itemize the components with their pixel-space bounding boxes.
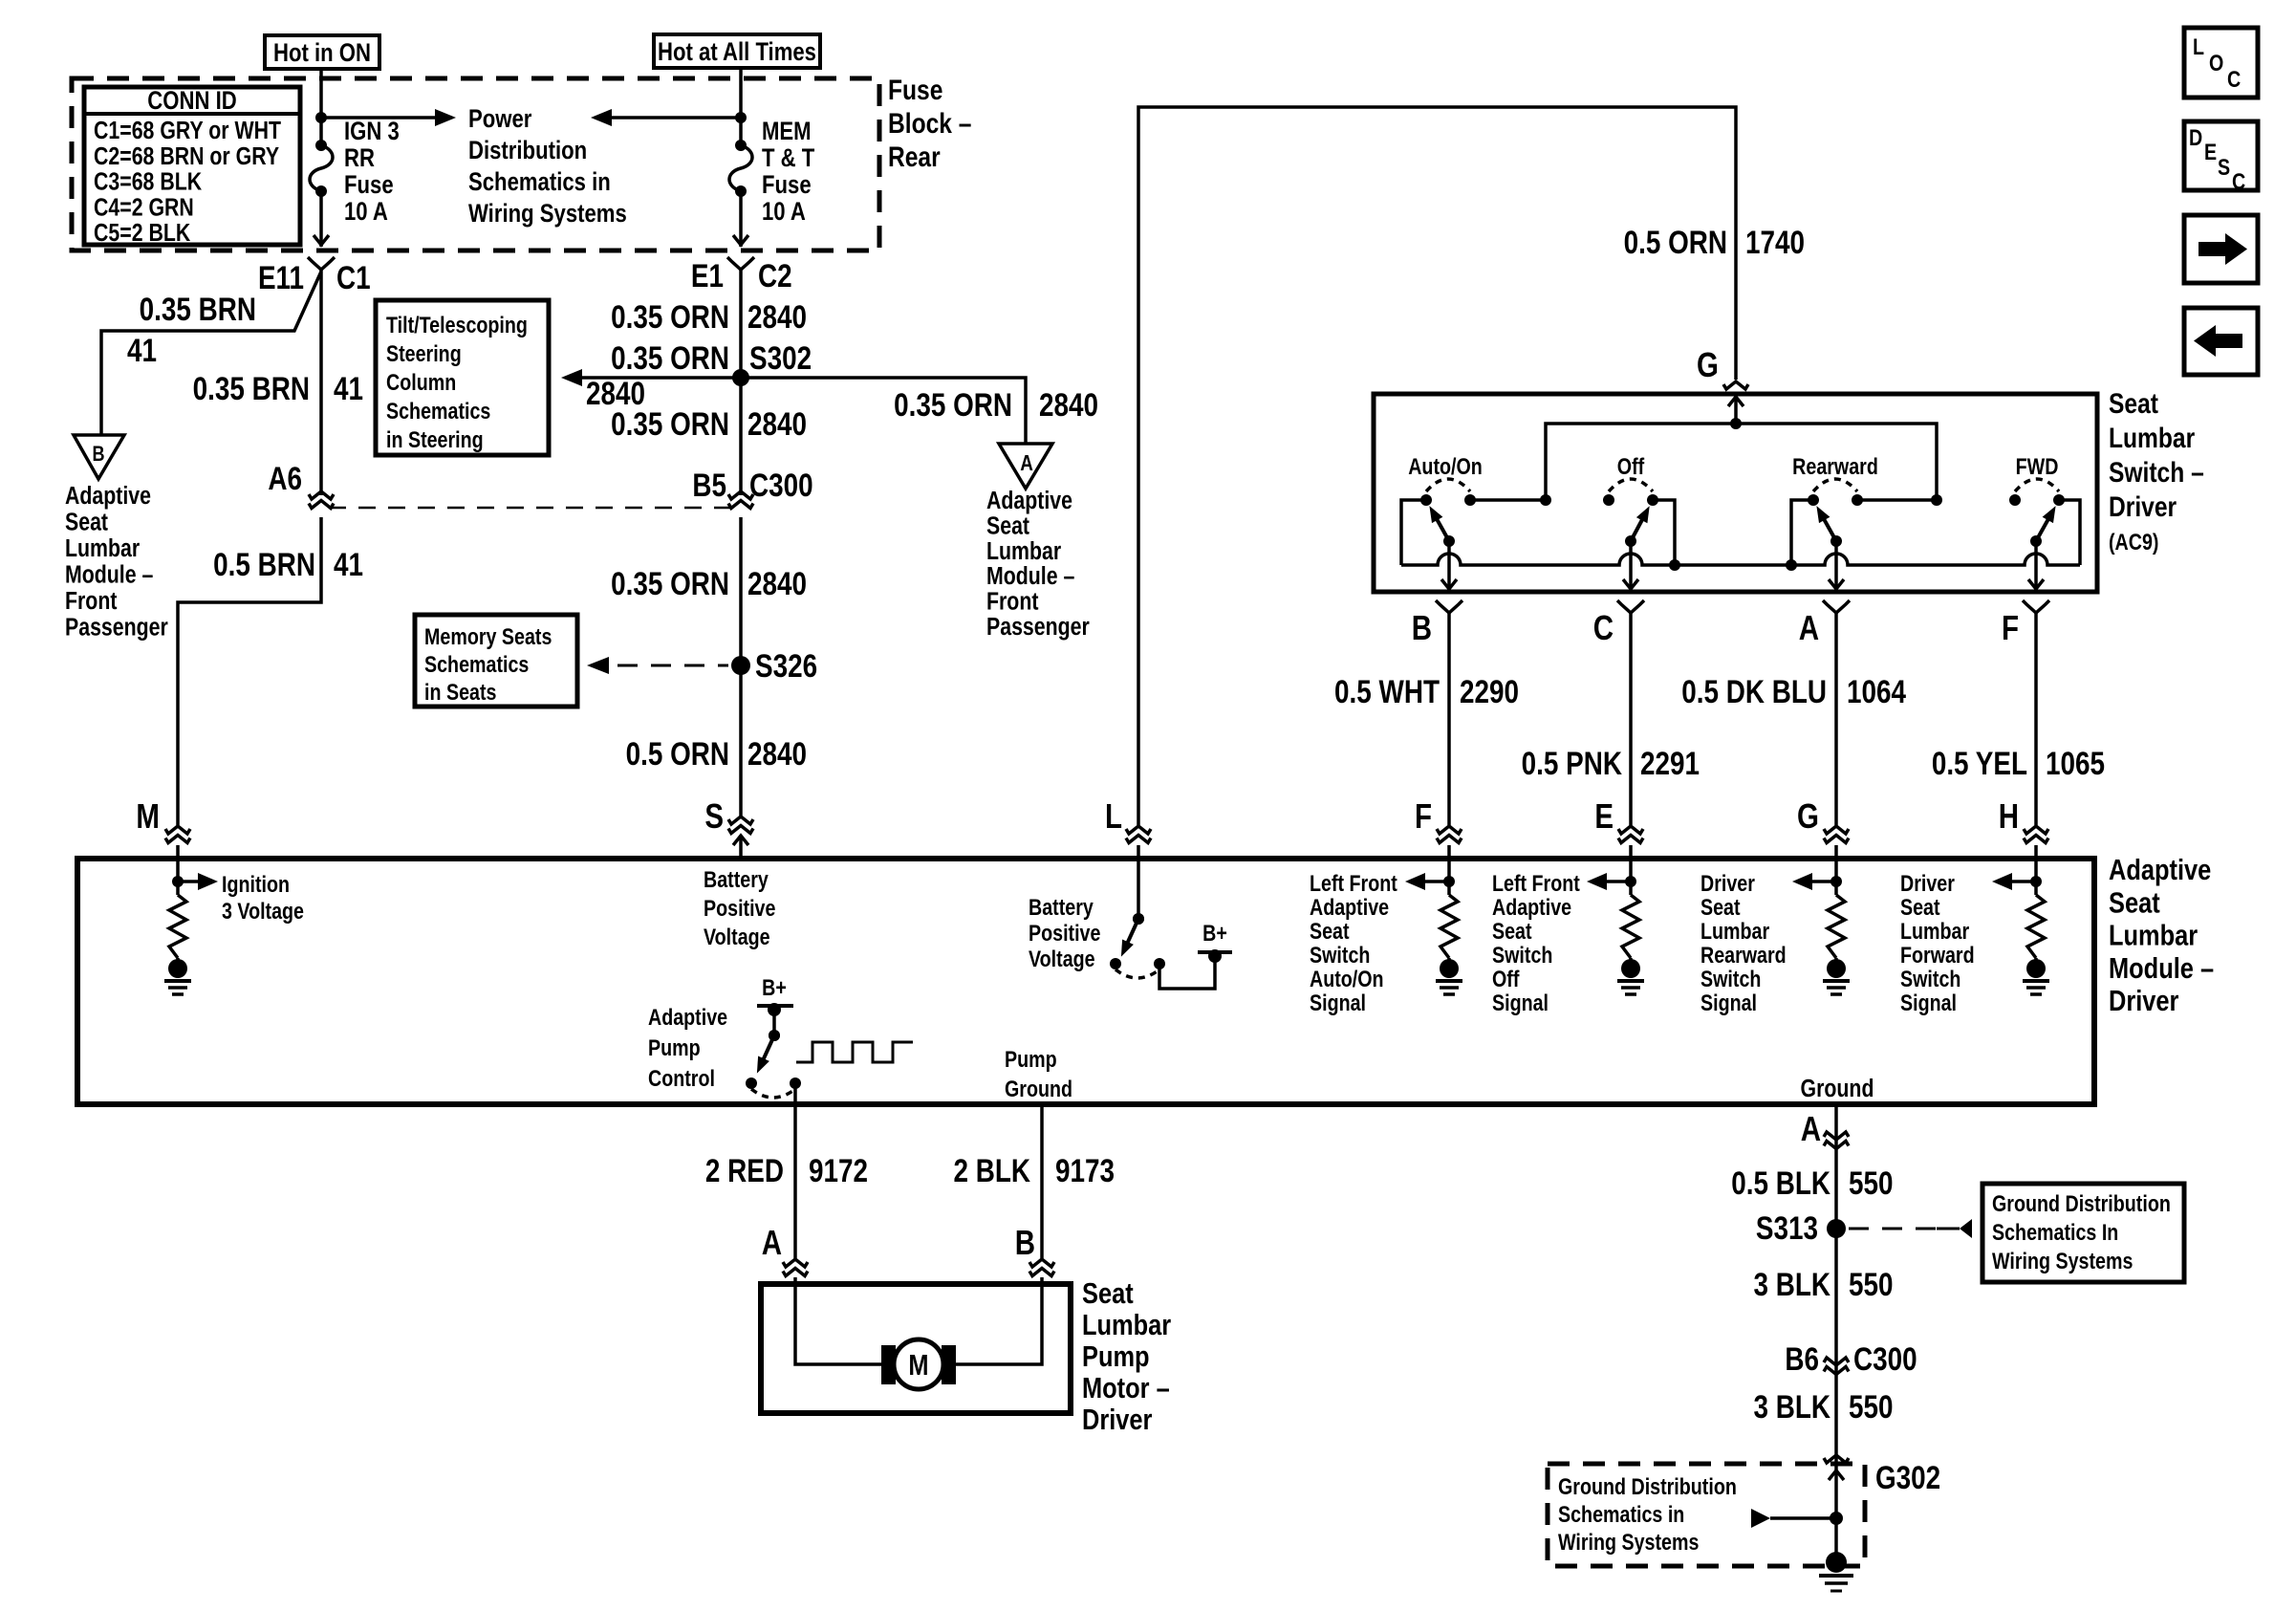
svg-text:Left Front: Left Front bbox=[1310, 870, 1397, 896]
svg-text:Seat: Seat bbox=[1700, 894, 1741, 920]
rail junction (Off) bbox=[1669, 559, 1680, 571]
svg-text:2840: 2840 bbox=[747, 298, 807, 335]
svg-text:C: C bbox=[1593, 608, 1614, 646]
svg-text:Battery: Battery bbox=[1029, 894, 1094, 920]
svg-text:Fuse: Fuse bbox=[344, 171, 394, 200]
junction of feed on contact rail (Rearward-FWD) bbox=[1931, 494, 1942, 506]
Off switch contacts bbox=[1603, 494, 1614, 506]
svg-text:Seat: Seat bbox=[2109, 387, 2158, 420]
adaptive seat lumbar module - driver box bbox=[77, 859, 2094, 1104]
switch pin B wire bbox=[1447, 541, 1451, 592]
node B triangle (front passenger module ref) bbox=[74, 435, 124, 479]
svg-text:C3=68 BLK: C3=68 BLK bbox=[94, 168, 202, 197]
svg-text:in Seats: in Seats bbox=[424, 679, 496, 705]
internal ground at x=1706 bbox=[1629, 958, 1633, 969]
ground output wire from module bbox=[1834, 1104, 1838, 1463]
svg-text:Pump: Pump bbox=[1082, 1340, 1150, 1374]
ground G302 dashed box bbox=[1548, 1464, 1865, 1566]
svg-text:C: C bbox=[2232, 168, 2245, 194]
svg-text:C2=68 BRN or GRY: C2=68 BRN or GRY bbox=[94, 142, 279, 171]
svg-text:Wiring Systems: Wiring Systems bbox=[468, 200, 627, 229]
svg-text:Switch –: Switch – bbox=[2109, 456, 2204, 489]
svg-text:0.5 WHT: 0.5 WHT bbox=[1334, 673, 1440, 709]
wire pump control to motor pin A (2 RED 9172) bbox=[793, 1083, 797, 1258]
svg-text:Lumbar: Lumbar bbox=[1900, 918, 1970, 944]
splice S326 bbox=[731, 656, 750, 675]
ignition 3 voltage node bbox=[176, 857, 180, 895]
svg-text:Left Front: Left Front bbox=[1492, 870, 1580, 896]
svg-text:Passenger: Passenger bbox=[986, 613, 1090, 642]
svg-text:Driver: Driver bbox=[2109, 985, 2178, 1018]
svg-text:Module –: Module – bbox=[2109, 952, 2214, 986]
svg-text:Signal: Signal bbox=[1492, 990, 1549, 1015]
svg-text:A: A bbox=[762, 1223, 782, 1261]
forward arrow legend box bbox=[2184, 215, 2258, 283]
svg-text:(AC9): (AC9) bbox=[2109, 529, 2158, 555]
svg-text:A: A bbox=[1020, 451, 1033, 475]
Off contact wiring bbox=[1653, 500, 1675, 565]
svg-text:9172: 9172 bbox=[809, 1152, 868, 1188]
svg-text:L: L bbox=[1105, 796, 1122, 835]
resistor at x=1921 bbox=[1828, 895, 1845, 958]
battery positive input arrow at S bbox=[739, 836, 743, 857]
svg-text:C2: C2 bbox=[758, 257, 792, 294]
Auto/On contact wiring bbox=[1470, 498, 1546, 502]
svg-text:C5=2 BLK: C5=2 BLK bbox=[94, 219, 190, 248]
svg-text:Switch: Switch bbox=[1900, 966, 1960, 991]
svg-text:Lumbar: Lumbar bbox=[2109, 422, 2195, 454]
CONN ID table bbox=[84, 87, 300, 245]
svg-text:0.5 ORN: 0.5 ORN bbox=[626, 735, 729, 772]
svg-text:0.35 BRN: 0.35 BRN bbox=[193, 370, 310, 406]
svg-text:S302: S302 bbox=[749, 339, 812, 376]
Rearward switch contacts bbox=[1808, 494, 1819, 506]
svg-text:550: 550 bbox=[1849, 1165, 1894, 1201]
motor internal wiring bbox=[795, 1284, 881, 1364]
dashed arrow to Memory Seats reference bbox=[617, 664, 728, 667]
svg-text:B6: B6 bbox=[1785, 1340, 1819, 1377]
svg-text:41: 41 bbox=[127, 332, 157, 368]
svg-text:0.35 ORN: 0.35 ORN bbox=[611, 405, 729, 442]
svg-text:Motor –: Motor – bbox=[1082, 1372, 1170, 1405]
internal ground at x=1921 bbox=[1834, 958, 1838, 969]
svg-text:B+: B+ bbox=[1202, 920, 1227, 946]
resistor at x=1706 bbox=[1622, 895, 1639, 958]
svg-text:E: E bbox=[2204, 139, 2217, 164]
svg-text:M: M bbox=[908, 1349, 928, 1382]
svg-text:E1: E1 bbox=[691, 257, 724, 294]
svg-text:0.35 ORN: 0.35 ORN bbox=[894, 386, 1012, 423]
svg-text:2 BLK: 2 BLK bbox=[953, 1152, 1030, 1188]
svg-text:A: A bbox=[1799, 608, 1819, 646]
svg-text:Lumbar: Lumbar bbox=[2109, 919, 2198, 952]
B+ terminal (battery switch) bbox=[1208, 949, 1222, 963]
wire from Hot in ON to fuse IGN 3 bbox=[319, 69, 323, 145]
svg-text:Fuse: Fuse bbox=[762, 171, 812, 200]
ground G302 symbol bbox=[1826, 1552, 1847, 1573]
svg-text:Hot at All Times: Hot at All Times bbox=[658, 38, 816, 67]
resistor at x=2130 bbox=[2027, 895, 2045, 958]
wire into ground feed arrow bbox=[1834, 1464, 1838, 1562]
splice S313 bbox=[1827, 1219, 1846, 1238]
switch pin A wire bbox=[1834, 541, 1838, 592]
FWD contact wiring bbox=[2059, 500, 2080, 565]
svg-text:2 RED: 2 RED bbox=[705, 1152, 784, 1188]
svg-text:C4=2 GRN: C4=2 GRN bbox=[94, 193, 194, 222]
svg-text:Ground: Ground bbox=[1005, 1076, 1072, 1101]
svg-text:Block –: Block – bbox=[888, 107, 971, 140]
seat lumbar pump motor - driver box bbox=[761, 1284, 1071, 1413]
svg-text:Pump: Pump bbox=[648, 1034, 701, 1060]
FWD switch blade bbox=[2030, 535, 2042, 547]
svg-text:Switch: Switch bbox=[1310, 942, 1370, 968]
svg-text:Seat: Seat bbox=[65, 509, 108, 537]
svg-text:MEM: MEM bbox=[762, 118, 812, 146]
svg-text:41: 41 bbox=[334, 546, 363, 582]
svg-text:1064: 1064 bbox=[1847, 673, 1907, 709]
svg-text:Passenger: Passenger bbox=[65, 614, 168, 642]
wire B5 to S326 bbox=[739, 517, 743, 665]
motor M (pump motor) bbox=[881, 1345, 896, 1384]
svg-text:T & T: T & T bbox=[762, 144, 814, 173]
wire pump ground to motor pin B (2 BLK 9173) bbox=[1040, 1104, 1044, 1258]
node A triangle (front passenger module ref) bbox=[999, 444, 1052, 489]
svg-text:in Steering: in Steering bbox=[386, 426, 484, 452]
Rearward contact wiring bbox=[1857, 498, 1937, 502]
svg-text:3 BLK: 3 BLK bbox=[1753, 1388, 1830, 1425]
svg-text:Seat: Seat bbox=[1492, 918, 1532, 944]
svg-text:0.5 PNK: 0.5 PNK bbox=[1522, 745, 1623, 781]
Off switch blade bbox=[1625, 535, 1636, 547]
svg-text:Seat: Seat bbox=[1082, 1277, 1134, 1311]
svg-text:1740: 1740 bbox=[1745, 224, 1805, 260]
svg-text:Auto/On: Auto/On bbox=[1408, 453, 1483, 479]
switch feed arrow from G bbox=[1734, 397, 1738, 424]
svg-text:Forward: Forward bbox=[1900, 942, 1975, 968]
svg-text:Control: Control bbox=[648, 1065, 715, 1091]
svg-text:Tilt/Telescoping: Tilt/Telescoping bbox=[386, 312, 528, 337]
svg-text:Seat: Seat bbox=[1900, 894, 1940, 920]
Hot at All Times label box bbox=[654, 34, 820, 68]
svg-text:G302: G302 bbox=[1875, 1459, 1940, 1495]
svg-text:2840: 2840 bbox=[1039, 386, 1098, 423]
wire S302 down to B5 bbox=[739, 378, 743, 495]
svg-text:Module –: Module – bbox=[65, 561, 153, 590]
svg-text:2840: 2840 bbox=[747, 405, 807, 442]
ground node junction bbox=[1830, 1512, 1843, 1525]
svg-text:Adaptive: Adaptive bbox=[1310, 894, 1389, 920]
svg-text:B: B bbox=[1015, 1223, 1035, 1261]
svg-text:G: G bbox=[1797, 796, 1819, 835]
svg-text:Voltage: Voltage bbox=[704, 924, 770, 949]
svg-text:C300: C300 bbox=[749, 467, 813, 503]
svg-text:FWD: FWD bbox=[2016, 453, 2059, 479]
svg-text:C1=68 GRY or WHT: C1=68 GRY or WHT bbox=[94, 117, 281, 145]
svg-text:Voltage: Voltage bbox=[1029, 946, 1095, 971]
svg-text:Driver: Driver bbox=[1082, 1404, 1152, 1437]
svg-text:Steering: Steering bbox=[386, 340, 462, 366]
svg-text:Lumbar: Lumbar bbox=[986, 537, 1061, 566]
svg-text:G: G bbox=[1697, 345, 1719, 383]
svg-text:S313: S313 bbox=[1756, 1209, 1818, 1246]
svg-text:S326: S326 bbox=[755, 647, 817, 684]
Hot in ON label box bbox=[265, 35, 379, 69]
svg-text:B: B bbox=[1412, 608, 1432, 646]
wire C2 E1 down to S302 bbox=[739, 270, 743, 378]
svg-text:0.5 BRN: 0.5 BRN bbox=[213, 546, 315, 582]
svg-text:B+: B+ bbox=[762, 974, 787, 1000]
input node pin at x=1921 bbox=[1834, 857, 1838, 895]
svg-text:Ground Distribution: Ground Distribution bbox=[1558, 1473, 1737, 1499]
svg-text:Module –: Module – bbox=[986, 562, 1074, 591]
svg-text:Off: Off bbox=[1617, 453, 1645, 479]
svg-text:Schematics In: Schematics In bbox=[1992, 1219, 2118, 1245]
svg-text:IGN 3: IGN 3 bbox=[344, 118, 400, 146]
svg-text:Schematics: Schematics bbox=[386, 398, 490, 424]
svg-text:F: F bbox=[1415, 796, 1432, 835]
svg-text:S: S bbox=[704, 796, 724, 835]
svg-text:Positive: Positive bbox=[704, 895, 775, 921]
svg-text:C1: C1 bbox=[336, 259, 371, 295]
svg-text:9173: 9173 bbox=[1055, 1152, 1115, 1188]
svg-text:C: C bbox=[2227, 66, 2241, 92]
wire C1 E11 down to A6 bbox=[319, 270, 323, 495]
svg-text:Rearward: Rearward bbox=[1792, 453, 1878, 479]
svg-text:2840: 2840 bbox=[747, 735, 807, 772]
svg-text:Adaptive: Adaptive bbox=[648, 1004, 727, 1030]
svg-text:Column: Column bbox=[386, 369, 456, 395]
connector at G302 bbox=[1824, 1455, 1849, 1463]
svg-text:Power: Power bbox=[468, 105, 532, 134]
svg-text:Schematics in: Schematics in bbox=[468, 168, 611, 197]
svg-text:Rear: Rear bbox=[888, 141, 941, 173]
svg-text:Ground: Ground bbox=[1801, 1075, 1874, 1103]
svg-text:H: H bbox=[1999, 796, 2019, 835]
svg-text:Adaptive: Adaptive bbox=[65, 482, 151, 511]
svg-text:Fuse: Fuse bbox=[888, 74, 942, 106]
svg-text:2290: 2290 bbox=[1460, 673, 1519, 709]
switch common rail with crossover hops bbox=[1401, 554, 2080, 565]
wire A6 to module pin M bbox=[178, 517, 321, 825]
svg-text:10 A: 10 A bbox=[762, 198, 806, 227]
svg-text:Lumbar: Lumbar bbox=[65, 534, 140, 563]
resistor (ignition 3 voltage) bbox=[169, 895, 186, 958]
fuse block - rear dashed outline bbox=[72, 78, 879, 250]
fuse MEM T&T 10A bbox=[735, 140, 747, 151]
svg-text:Switch: Switch bbox=[1492, 942, 1552, 968]
svg-text:550: 550 bbox=[1849, 1388, 1894, 1425]
svg-text:Driver: Driver bbox=[1900, 870, 1955, 896]
svg-text:0.35 BRN: 0.35 BRN bbox=[140, 291, 256, 327]
switch pin C wire bbox=[1629, 541, 1633, 592]
switch internal distribution wire bbox=[1546, 424, 1937, 500]
svg-text:L: L bbox=[2193, 33, 2204, 59]
svg-text:Signal: Signal bbox=[1900, 990, 1957, 1015]
svg-text:Wiring Systems: Wiring Systems bbox=[1558, 1529, 1699, 1555]
svg-text:Adaptive: Adaptive bbox=[2109, 854, 2211, 887]
svg-text:3 BLK: 3 BLK bbox=[1753, 1266, 1830, 1302]
svg-text:CONN ID: CONN ID bbox=[147, 87, 236, 116]
svg-text:0.5 DK BLU: 0.5 DK BLU bbox=[1681, 673, 1827, 709]
wire 0.35 BRN 41 branch to front passenger module bbox=[101, 272, 321, 435]
resistor at x=1516 bbox=[1440, 895, 1458, 958]
svg-text:41: 41 bbox=[334, 370, 363, 406]
svg-text:Seat: Seat bbox=[986, 512, 1029, 540]
DESC legend box bbox=[2184, 121, 2258, 190]
svg-text:0.5 ORN: 0.5 ORN bbox=[1624, 224, 1727, 260]
dashed arrow to ground distribution reference bbox=[1849, 1228, 1937, 1230]
wire S302 to node A triangle bbox=[741, 378, 1026, 444]
Rearward switch blade bbox=[1830, 535, 1842, 547]
LOC legend box bbox=[2184, 28, 2258, 98]
input node pin at x=1706 bbox=[1629, 857, 1633, 895]
internal ground at x=2130 bbox=[2034, 958, 2038, 969]
svg-text:2291: 2291 bbox=[1640, 745, 1700, 781]
svg-text:Memory Seats: Memory Seats bbox=[424, 623, 552, 649]
svg-text:0.5 BLK: 0.5 BLK bbox=[1731, 1165, 1830, 1201]
svg-text:Distribution: Distribution bbox=[468, 137, 587, 165]
svg-text:0.35 ORN: 0.35 ORN bbox=[611, 339, 729, 376]
internal ground (ignition) bbox=[176, 958, 180, 969]
svg-text:C300: C300 bbox=[1853, 1340, 1917, 1377]
svg-text:Signal: Signal bbox=[1700, 990, 1757, 1015]
svg-text:Battery: Battery bbox=[704, 866, 769, 892]
svg-text:Front: Front bbox=[986, 588, 1039, 617]
svg-text:Ignition: Ignition bbox=[222, 871, 290, 897]
svg-text:Off: Off bbox=[1492, 966, 1520, 991]
svg-text:0.5 YEL: 0.5 YEL bbox=[1932, 745, 2027, 781]
arrow to Power Distribution reference (left) bbox=[612, 116, 741, 120]
svg-text:Driver: Driver bbox=[1700, 870, 1755, 896]
Memory Seats Schematics in Seats box bbox=[415, 615, 577, 707]
arrow to Tilt/Telescoping reference bbox=[582, 376, 741, 380]
arrow into ground point bbox=[1751, 1509, 1770, 1528]
svg-text:Schematics: Schematics bbox=[424, 651, 529, 677]
svg-text:RR: RR bbox=[344, 144, 375, 173]
svg-text:3 Voltage: 3 Voltage bbox=[222, 898, 304, 924]
connector C2 (E1) bbox=[727, 257, 754, 270]
back arrow legend box bbox=[2184, 308, 2258, 375]
internal switch (battery positive) bbox=[1137, 857, 1140, 919]
svg-text:M: M bbox=[136, 796, 160, 835]
switch internal feed node bbox=[1730, 418, 1742, 429]
junction node on MEM wire bbox=[735, 112, 747, 123]
svg-text:A: A bbox=[1801, 1109, 1821, 1147]
svg-text:B: B bbox=[92, 443, 104, 466]
switch pin F wire bbox=[2034, 541, 2038, 592]
Auto/On switch contacts bbox=[1420, 494, 1432, 506]
connector C1 (E11) bbox=[308, 257, 335, 270]
wire from MEM fuse to connector C2 bbox=[739, 191, 743, 247]
wire S326 to module pin S bbox=[739, 665, 743, 816]
svg-text:D: D bbox=[2189, 124, 2202, 150]
svg-text:E: E bbox=[1594, 796, 1614, 835]
svg-text:550: 550 bbox=[1849, 1266, 1894, 1302]
svg-text:Positive: Positive bbox=[1029, 920, 1100, 946]
svg-text:0.35 ORN: 0.35 ORN bbox=[611, 298, 729, 335]
FWD switch contacts bbox=[2009, 494, 2021, 506]
svg-text:Schematics in: Schematics in bbox=[1558, 1501, 1684, 1527]
svg-text:10 A: 10 A bbox=[344, 198, 388, 227]
svg-text:Wiring Systems: Wiring Systems bbox=[1992, 1248, 2133, 1274]
wire 0.5 ORN 1740 (L to switch G) bbox=[1138, 107, 1736, 825]
svg-text:Adaptive: Adaptive bbox=[1492, 894, 1571, 920]
ground distribution schematics box (upper) bbox=[1982, 1184, 2184, 1282]
svg-text:Auto/On: Auto/On bbox=[1310, 966, 1384, 991]
square wave symbol bbox=[796, 1042, 913, 1062]
splice S302 bbox=[732, 369, 749, 386]
arrow to Power Distribution reference bbox=[321, 116, 435, 120]
svg-text:Rearward: Rearward bbox=[1700, 942, 1787, 968]
svg-text:Seat: Seat bbox=[1310, 918, 1350, 944]
svg-text:A6: A6 bbox=[268, 460, 302, 496]
junction node on IGN 3 wire bbox=[315, 112, 327, 123]
Tilt/Telescoping Steering Column Schematics in Steering box bbox=[376, 300, 549, 455]
svg-text:Seat: Seat bbox=[2109, 886, 2160, 920]
svg-text:Ground Distribution: Ground Distribution bbox=[1992, 1190, 2171, 1216]
input node pin at x=1516 bbox=[1447, 857, 1451, 895]
svg-text:Hot in ON: Hot in ON bbox=[273, 39, 371, 68]
fuse IGN 3 RR 10A bbox=[315, 140, 327, 151]
internal switch (pump control) bbox=[772, 1010, 776, 1035]
junction of feed on contact rail (Auto/On-Off) bbox=[1540, 494, 1551, 506]
svg-text:1065: 1065 bbox=[2046, 745, 2105, 781]
svg-text:F: F bbox=[2002, 608, 2019, 646]
input node pin at x=2130 bbox=[2034, 857, 2038, 895]
svg-text:Lumbar: Lumbar bbox=[1700, 918, 1770, 944]
wire from fuse to connector C1 bbox=[319, 191, 323, 247]
svg-text:O: O bbox=[2209, 50, 2223, 76]
svg-text:Lumbar: Lumbar bbox=[1082, 1309, 1171, 1342]
connector C300 dashed link line bbox=[329, 507, 730, 510]
svg-text:S: S bbox=[2218, 154, 2230, 180]
rail junction (Rearward) bbox=[1786, 559, 1797, 571]
svg-text:E11: E11 bbox=[258, 259, 304, 295]
svg-text:2840: 2840 bbox=[747, 565, 807, 601]
svg-text:Adaptive: Adaptive bbox=[986, 487, 1072, 515]
svg-text:Driver: Driver bbox=[2109, 490, 2177, 523]
svg-text:Switch: Switch bbox=[1700, 966, 1761, 991]
svg-text:Pump: Pump bbox=[1005, 1046, 1057, 1072]
seat lumbar switch - driver box bbox=[1374, 394, 2097, 592]
svg-text:Front: Front bbox=[65, 587, 118, 616]
svg-text:B5: B5 bbox=[692, 467, 726, 503]
internal ground at x=1516 bbox=[1447, 958, 1451, 969]
wire from Hot at All Times to MEM fuse bbox=[739, 68, 743, 145]
Auto/On switch blade bbox=[1443, 535, 1455, 547]
svg-text:Signal: Signal bbox=[1310, 990, 1366, 1015]
svg-text:0.35 ORN: 0.35 ORN bbox=[611, 565, 729, 601]
